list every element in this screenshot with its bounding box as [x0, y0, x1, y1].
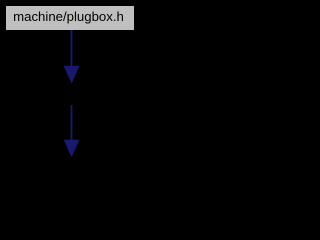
- arrowhead edge2: [64, 140, 80, 158]
- node machine/plugbox.h: [5, 5, 135, 31]
- wire edge2 shaft: [71, 105, 73, 141]
- arrowhead edge1: [64, 66, 80, 84]
- wire edge1 shaft: [71, 30, 73, 67]
